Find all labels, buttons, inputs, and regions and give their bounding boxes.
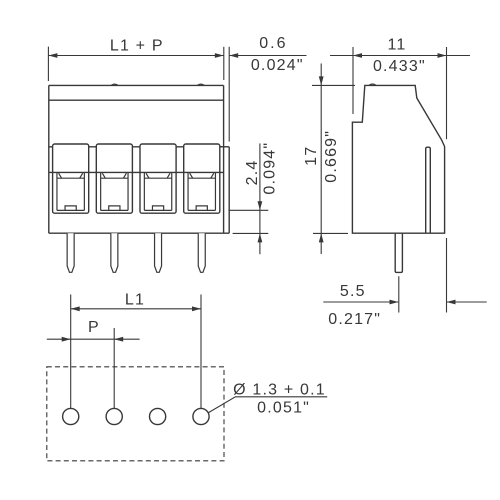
svg-text:0.094": 0.094" [261, 142, 278, 195]
svg-text:L1: L1 [125, 291, 145, 308]
svg-text:0.051": 0.051" [257, 400, 310, 417]
svg-text:P: P [88, 319, 100, 336]
svg-text:0.217": 0.217" [328, 311, 381, 328]
svg-text:0.6: 0.6 [259, 35, 287, 52]
svg-text:11: 11 [387, 37, 406, 54]
svg-text:2.4: 2.4 [244, 159, 261, 185]
svg-text:5.5: 5.5 [340, 283, 366, 300]
svg-text:0.669": 0.669" [323, 130, 340, 183]
svg-text:17: 17 [303, 146, 320, 166]
svg-text:Ø 1.3 + 0.1: Ø 1.3 + 0.1 [233, 382, 326, 399]
svg-text:L1 + P: L1 + P [110, 38, 164, 55]
svg-text:0.024": 0.024" [251, 57, 304, 74]
svg-text:0.433": 0.433" [373, 58, 426, 75]
